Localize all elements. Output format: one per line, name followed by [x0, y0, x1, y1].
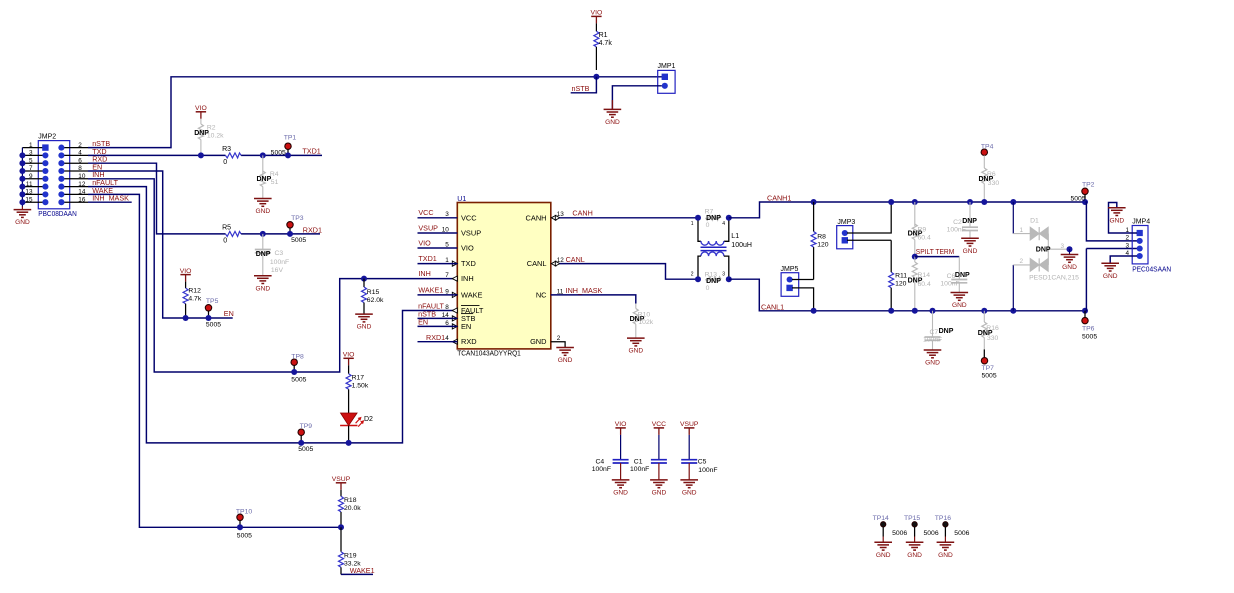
junction RXD/C3 [260, 231, 266, 237]
junction R11/CANL1 [888, 308, 894, 314]
svg-text:5005: 5005 [206, 321, 221, 328]
JMP2 pin 10 [61, 178, 88, 180]
svg-text:CANL1: CANL1 [761, 302, 784, 311]
svg-text:5005: 5005 [291, 377, 306, 384]
capacitor C1 100nF [658, 435, 660, 460]
net label RXD1 (U1) [418, 341, 458, 343]
JMP2 pin 1 [22, 147, 45, 149]
resistor R18 20.0k [340, 490, 342, 497]
svg-text:DNP: DNP [1036, 246, 1051, 253]
svg-text:5005: 5005 [237, 532, 252, 539]
JMP2 pin 4 [61, 154, 88, 156]
svg-text:2: 2 [691, 271, 694, 277]
wire WAKE row [88, 194, 341, 527]
svg-text:GND: GND [628, 348, 643, 355]
svg-text:GND: GND [530, 337, 546, 346]
svg-text:PESD1CAN,215: PESD1CAN,215 [1029, 275, 1079, 282]
wire EN row [88, 171, 233, 318]
svg-text:R6: R6 [987, 171, 996, 178]
ground (C2) [961, 237, 979, 239]
JMP2 pin 6 [61, 162, 88, 164]
svg-text:51: 51 [271, 179, 279, 186]
svg-text:VIO: VIO [195, 105, 207, 112]
ground (C3) [254, 275, 272, 277]
junction INH/R15 [361, 276, 367, 282]
svg-text:0: 0 [223, 237, 227, 244]
junction [19, 160, 25, 166]
svg-text:WAKE1: WAKE1 [350, 566, 375, 575]
svg-text:5005: 5005 [1071, 196, 1086, 203]
junction SPLIT TERM node [912, 254, 918, 260]
svg-text:GND: GND [876, 552, 891, 559]
svg-text:GND: GND [613, 490, 628, 497]
resistor R17 1.50k [348, 365, 350, 373]
svg-text:DNP: DNP [939, 328, 954, 335]
wire CANL1 to JMP4 pin3 [1085, 249, 1088, 311]
wire CANH (U1 to L1) [560, 217, 699, 219]
resistor R12 4.7k [185, 282, 187, 289]
svg-text:WAKE1: WAKE1 [418, 285, 443, 294]
net label VCC (U1) [418, 217, 458, 219]
resistor R15 62.0k [363, 279, 365, 287]
svg-text:nSTB: nSTB [572, 84, 590, 93]
svg-text:CANH1: CANH1 [767, 193, 791, 202]
svg-text:5005: 5005 [271, 149, 286, 156]
svg-text:C1: C1 [634, 459, 643, 466]
net label VSUP (U1) [418, 232, 458, 234]
svg-text:R4: R4 [270, 171, 279, 178]
svg-text:5005: 5005 [1082, 333, 1097, 340]
ground (JMP4 pin4) [1101, 262, 1119, 264]
inductor L1 100uH common-mode choke [698, 218, 701, 242]
svg-text:8: 8 [445, 304, 449, 311]
svg-text:RXD: RXD [461, 337, 477, 346]
svg-text:5005: 5005 [291, 237, 306, 244]
junction R14/CANL1 [912, 308, 918, 314]
svg-text:5: 5 [29, 157, 33, 164]
svg-text:8: 8 [78, 165, 82, 172]
svg-text:16: 16 [78, 196, 86, 203]
ground (C5) [680, 479, 698, 481]
junction JMP5/CANL1 [811, 308, 817, 314]
junction TXD/R2 [198, 152, 204, 158]
svg-text:R10: R10 [638, 311, 651, 318]
ground (JMP1) [611, 100, 613, 109]
svg-text:PEC04SAAN: PEC04SAAN [1132, 264, 1171, 273]
svg-text:R19: R19 [344, 553, 357, 560]
svg-text:100nF: 100nF [698, 467, 717, 474]
net label VIO (U1) [418, 247, 458, 249]
svg-text:D1: D1 [1030, 218, 1039, 225]
svg-text:DNP: DNP [955, 272, 970, 279]
svg-text:C7: C7 [930, 329, 939, 336]
svg-text:GND: GND [925, 360, 940, 367]
wire JMP3 pin2 to R11 [847, 239, 891, 241]
svg-text:R3: R3 [222, 146, 231, 153]
svg-text:7: 7 [445, 272, 449, 279]
svg-text:GND: GND [15, 219, 30, 226]
JMP2 pin 3 [22, 154, 45, 156]
svg-text:RXD1: RXD1 [303, 225, 322, 234]
ground (C7) [924, 349, 942, 351]
resistor R1 4.7k [595, 23, 597, 31]
svg-text:GND: GND [255, 208, 270, 215]
svg-text:R14: R14 [918, 272, 931, 279]
LED D2 [341, 413, 358, 426]
resistor R13 0 (DNP bypass) [706, 277, 722, 282]
svg-text:20.0k: 20.0k [344, 505, 361, 512]
JMP2 pin 5 [22, 162, 45, 164]
svg-text:VCC: VCC [652, 421, 666, 428]
resistor R7 0 (DNP bypass) [706, 215, 722, 220]
net label TXD1 (U1) [418, 263, 458, 265]
junction L1/R7 right [726, 215, 732, 221]
svg-text:R12: R12 [188, 288, 201, 295]
wire JMP5 pin2 to CANL1 [792, 288, 814, 311]
svg-text:VSUP: VSUP [418, 223, 438, 232]
svg-text:2: 2 [557, 335, 561, 342]
svg-text:PBC08DAAN: PBC08DAAN [38, 209, 77, 218]
svg-text:VIO: VIO [591, 10, 603, 17]
capacitor C7 100nF (DNP) [932, 311, 934, 337]
svg-text:100nF: 100nF [923, 337, 942, 344]
svg-text:VIO: VIO [180, 268, 192, 275]
svg-text:C3: C3 [275, 250, 284, 257]
svg-text:R8: R8 [817, 234, 826, 241]
junction CANL1/C7 [930, 308, 936, 314]
svg-text:C4: C4 [595, 459, 604, 466]
ground (C4) [612, 479, 630, 481]
svg-text:14: 14 [78, 189, 86, 196]
svg-text:13: 13 [25, 189, 33, 196]
resistor R11 120 [890, 240, 892, 272]
junction JMP3/CANH1 [888, 199, 894, 205]
junction [19, 168, 25, 174]
wire R8 to JMP5 pin1 [792, 279, 814, 281]
svg-text:VCC: VCC [418, 208, 433, 217]
resistor R4 51 (DNP) [262, 155, 264, 176]
TVS diode D1 PESD1CAN,215 (DNP) [1012, 202, 1014, 234]
svg-text:VSUP: VSUP [332, 476, 351, 483]
svg-text:C5: C5 [698, 459, 707, 466]
svg-text:1.50k: 1.50k [352, 383, 369, 390]
svg-text:R1: R1 [599, 32, 608, 39]
net label nSTB [571, 77, 597, 93]
ground (C6) [951, 292, 969, 294]
svg-text:0: 0 [706, 285, 710, 292]
svg-text:100nF: 100nF [270, 259, 289, 266]
svg-text:5005: 5005 [982, 372, 997, 379]
junction L1/R7 left [695, 215, 701, 221]
svg-text:GND: GND [1109, 217, 1124, 224]
svg-text:GND: GND [952, 302, 967, 309]
svg-text:TXD: TXD [461, 259, 476, 268]
svg-text:GND: GND [1103, 273, 1118, 280]
svg-text:JMP2: JMP2 [38, 134, 56, 141]
junction [19, 176, 25, 182]
svg-text:VSUP: VSUP [461, 229, 481, 238]
svg-text:RXD1: RXD1 [426, 333, 445, 342]
svg-text:DNP: DNP [962, 218, 977, 225]
svg-text:4: 4 [78, 150, 82, 157]
capacitor C4 100nF [620, 435, 622, 460]
junction [19, 184, 25, 190]
wire JMP2 ground bus [21, 148, 23, 207]
wire R5 to RXD1 [241, 233, 320, 235]
net label WAKE1 (R19) [341, 573, 373, 575]
resistor R10 102k (DNP) [635, 304, 637, 309]
svg-text:VCC: VCC [461, 213, 477, 222]
svg-text:INH: INH [461, 274, 474, 283]
IC U1 TCAN1043ADYYRQ1 [457, 203, 551, 349]
svg-text:R15: R15 [367, 289, 380, 296]
resistor R9 60.4 (DNP) [914, 202, 916, 226]
svg-text:VIO: VIO [615, 421, 627, 428]
svg-text:3: 3 [29, 150, 33, 157]
svg-text:12: 12 [78, 181, 86, 188]
svg-text:EN: EN [461, 322, 471, 331]
svg-text:3: 3 [1061, 243, 1065, 250]
U1 FAULT overline [461, 305, 480, 307]
svg-text:TP16: TP16 [935, 515, 951, 522]
svg-text:4.7k: 4.7k [599, 40, 613, 47]
junction L1/R13 right [726, 276, 732, 282]
svg-text:GND: GND [682, 490, 697, 497]
svg-text:4: 4 [722, 221, 725, 227]
svg-text:5006: 5006 [954, 530, 969, 537]
svg-text:TP3: TP3 [291, 215, 304, 222]
svg-text:INH: INH [418, 269, 430, 278]
junction TXD/R4 [260, 152, 266, 158]
resistor R16 330 (DNP) [983, 311, 985, 322]
svg-text:GND: GND [1062, 264, 1077, 271]
wire INH_MASK (U1 NC) [551, 295, 636, 304]
svg-text:3: 3 [1125, 242, 1129, 249]
svg-text:GND: GND [963, 248, 978, 255]
svg-text:TP2: TP2 [1082, 182, 1095, 189]
wire JMP4 pin1 to ground [1109, 203, 1138, 234]
resistor R6 330 (DNP) [983, 155, 985, 168]
capacitor C5 100nF [688, 435, 690, 460]
svg-text:330: 330 [987, 335, 999, 342]
svg-text:TP14: TP14 [873, 515, 889, 522]
junction CANL1/R16 [981, 308, 987, 314]
svg-text:0: 0 [223, 159, 227, 166]
ground (C1) [650, 479, 668, 481]
resistor R14 60.4 (DNP) [914, 257, 916, 262]
svg-text:16V: 16V [271, 267, 284, 274]
svg-text:TP15: TP15 [904, 515, 920, 522]
svg-text:TXD1: TXD1 [302, 146, 320, 155]
JMP2 pin 8 [61, 170, 88, 172]
svg-text:VSUP: VSUP [680, 421, 699, 428]
junction WAKE/R18/R19 [338, 524, 344, 530]
ground (TP14) [874, 541, 892, 543]
junction R6/CANH1 [981, 199, 987, 205]
wire JMP4 pin4 to ground [1110, 256, 1137, 263]
JMP2 pin 9 [22, 178, 45, 180]
wire SPLIT TERM to C6 [915, 256, 960, 258]
junction CANH1/R8 [811, 199, 817, 205]
wire CANH1 bus [729, 202, 1086, 218]
svg-text:R17: R17 [352, 375, 365, 382]
resistor R2 10.2k (DNP) [200, 119, 202, 124]
JMP2 pin 15 [22, 201, 45, 203]
svg-text:EN: EN [418, 318, 428, 327]
svg-text:60.4: 60.4 [918, 281, 931, 288]
resistor R5 0 [226, 231, 242, 236]
capacitor C6 100nF (DNP) [958, 257, 960, 280]
test point TP6 5005 [1082, 308, 1088, 314]
svg-text:100nF: 100nF [947, 226, 966, 233]
wire JMP1 pin2 to ground [612, 86, 661, 110]
junction CANL1/D1 [1010, 308, 1016, 314]
svg-text:NC: NC [536, 290, 547, 299]
svg-text:TCAN1043ADYYRQ1: TCAN1043ADYYRQ1 [457, 349, 521, 358]
svg-text:0: 0 [706, 222, 710, 229]
svg-text:TP5: TP5 [206, 298, 219, 305]
JMP2 pin 7 [22, 170, 45, 172]
svg-text:GND: GND [357, 324, 372, 331]
svg-text:TP6: TP6 [1082, 325, 1095, 332]
svg-text:R18: R18 [344, 497, 357, 504]
svg-text:1: 1 [691, 221, 694, 227]
svg-text:VIO: VIO [461, 244, 474, 253]
ground (JMP2) [21, 207, 23, 210]
svg-text:120: 120 [895, 280, 907, 287]
test point TP7 5005 [983, 349, 985, 357]
JMP2 pin 16 [61, 201, 88, 203]
svg-text:SPILT TERM: SPILT TERM [916, 247, 955, 256]
wire INH row [88, 179, 457, 372]
junction L1/R13 left [695, 276, 701, 282]
svg-text:GND: GND [907, 552, 922, 559]
resistor R19 33.2k [340, 527, 342, 551]
svg-text:102k: 102k [638, 319, 653, 326]
svg-text:3: 3 [722, 271, 725, 277]
wire RXD row [88, 163, 226, 234]
junction CANH1/R9 [912, 199, 918, 205]
svg-text:D2: D2 [364, 416, 373, 423]
svg-text:R11: R11 [895, 272, 907, 279]
svg-text:C2: C2 [953, 219, 962, 226]
svg-text:1: 1 [29, 142, 33, 149]
junction CANH1/C2 [967, 199, 973, 205]
svg-text:120: 120 [817, 241, 829, 248]
ground (R4) [254, 198, 272, 200]
junction [19, 152, 25, 158]
svg-text:2: 2 [1125, 235, 1129, 242]
ground (TP16) [937, 541, 955, 543]
junction CANH1/D1 [1010, 199, 1016, 205]
capacitor C3 100nF (DNP) [262, 234, 264, 250]
JMP2 pin 12 [61, 186, 88, 188]
net label WAKE1 (U1) [418, 294, 458, 296]
svg-text:R2: R2 [207, 124, 216, 131]
svg-text:100nF: 100nF [940, 280, 959, 287]
ground (JMP4 pin1) [1108, 207, 1126, 209]
wire INH_MASK stub [88, 201, 132, 203]
svg-text:GND: GND [255, 285, 270, 292]
svg-text:2: 2 [78, 142, 82, 149]
ground (R15) [355, 313, 373, 315]
svg-text:1: 1 [1020, 227, 1024, 234]
svg-text:CANH: CANH [526, 213, 547, 222]
resistor R3 0 [226, 153, 242, 158]
svg-text:TP1: TP1 [284, 135, 297, 142]
svg-text:GND: GND [558, 357, 573, 364]
svg-text:10: 10 [78, 173, 86, 180]
junction EN/R12 [183, 315, 189, 321]
svg-text:DNP: DNP [256, 251, 271, 258]
wire nFAULT row [88, 187, 457, 443]
svg-text:EN: EN [224, 309, 234, 318]
svg-text:5005: 5005 [298, 446, 313, 453]
svg-text:330: 330 [988, 180, 1000, 187]
svg-text:R9: R9 [918, 226, 927, 233]
resistor R8 120 [813, 202, 815, 232]
svg-text:U1: U1 [457, 196, 466, 203]
JMP2 pin 14 [61, 193, 88, 195]
svg-text:6: 6 [78, 157, 82, 164]
ground (TP15) [906, 541, 924, 543]
svg-text:62.0k: 62.0k [367, 297, 384, 304]
svg-text:100nF: 100nF [630, 466, 649, 473]
svg-text:GND: GND [938, 552, 953, 559]
svg-text:TP7: TP7 [982, 365, 995, 372]
junction [19, 199, 25, 205]
svg-text:GND: GND [652, 490, 667, 497]
wire TXD row [88, 154, 226, 156]
JMP2 pin 2 [61, 147, 88, 149]
JMP2 pin 13 [22, 193, 45, 195]
svg-text:100nF: 100nF [592, 466, 611, 473]
svg-text:4.7k: 4.7k [188, 296, 201, 303]
JMP2 pin 11 [22, 186, 45, 188]
wire CANL1 bus [729, 279, 1086, 311]
svg-text:5006: 5006 [924, 530, 939, 537]
svg-text:WAKE: WAKE [461, 290, 483, 299]
svg-text:VIO: VIO [343, 352, 355, 359]
svg-text:60.4: 60.4 [918, 234, 931, 241]
svg-text:JMP4: JMP4 [1132, 219, 1150, 226]
svg-text:7: 7 [29, 165, 33, 172]
svg-text:JMP1: JMP1 [658, 63, 676, 70]
wire CANL (U1 to L1) [560, 264, 699, 280]
junction D2/nFAULT [346, 440, 352, 446]
svg-text:9: 9 [29, 173, 33, 180]
ground (U1 pin 2) [551, 342, 565, 348]
svg-text:CANL: CANL [527, 259, 547, 268]
svg-text:CANH: CANH [572, 209, 592, 218]
svg-text:L1: L1 [731, 233, 739, 240]
svg-text:100uH: 100uH [731, 242, 752, 249]
svg-text:2: 2 [1020, 258, 1024, 265]
junction nSTB/R1/JMP1 [593, 74, 599, 80]
svg-text:11: 11 [26, 181, 33, 188]
wire nSTB top bus [88, 77, 662, 148]
net label nSTB (U1) [418, 317, 458, 319]
svg-text:INH_MASK: INH_MASK [566, 286, 603, 295]
svg-text:15: 15 [25, 196, 33, 203]
net label EN (U1) [418, 325, 458, 327]
capacitor C2 100nF (DNP) [969, 202, 971, 227]
svg-text:GND: GND [605, 119, 620, 126]
svg-text:CANL: CANL [566, 255, 585, 264]
svg-text:10.2k: 10.2k [207, 132, 224, 139]
ground (D1 pin 3) [1067, 246, 1073, 252]
svg-text:VIO: VIO [418, 238, 431, 247]
